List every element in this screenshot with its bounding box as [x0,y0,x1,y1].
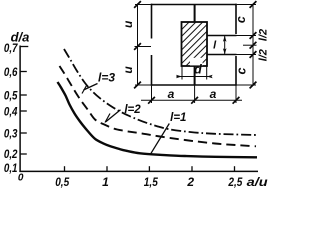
svg-text:l=1: l=1 [170,112,186,124]
svg-text:0,3: 0,3 [4,126,18,140]
svg-text:l/2: l/2 [258,29,270,41]
svg-text:a: a [210,87,217,101]
svg-text:0,7: 0,7 [4,41,19,55]
svg-text:0: 0 [18,173,24,184]
svg-text:a: a [168,87,175,101]
svg-text:0,1: 0,1 [4,161,18,175]
svg-text:u: u [121,20,135,28]
svg-text:c: c [235,67,249,74]
svg-text:c: c [234,16,248,23]
svg-text:l/2: l/2 [258,49,270,61]
svg-text:0,4: 0,4 [4,104,18,118]
svg-text:1: 1 [102,175,109,189]
svg-text:l=3: l=3 [98,71,115,85]
svg-text:1,5: 1,5 [144,175,158,189]
svg-text:0,5: 0,5 [55,175,69,189]
svg-text:2: 2 [186,175,194,189]
svg-text:0,6: 0,6 [4,65,18,79]
svg-text:2,5: 2,5 [228,175,243,189]
svg-text:l=2: l=2 [124,104,141,116]
svg-text:d: d [194,63,202,77]
svg-text:u: u [121,66,135,74]
svg-text:0,2: 0,2 [4,147,18,161]
svg-text:a/u: a/u [247,175,269,189]
svg-text:0,5: 0,5 [4,88,18,102]
